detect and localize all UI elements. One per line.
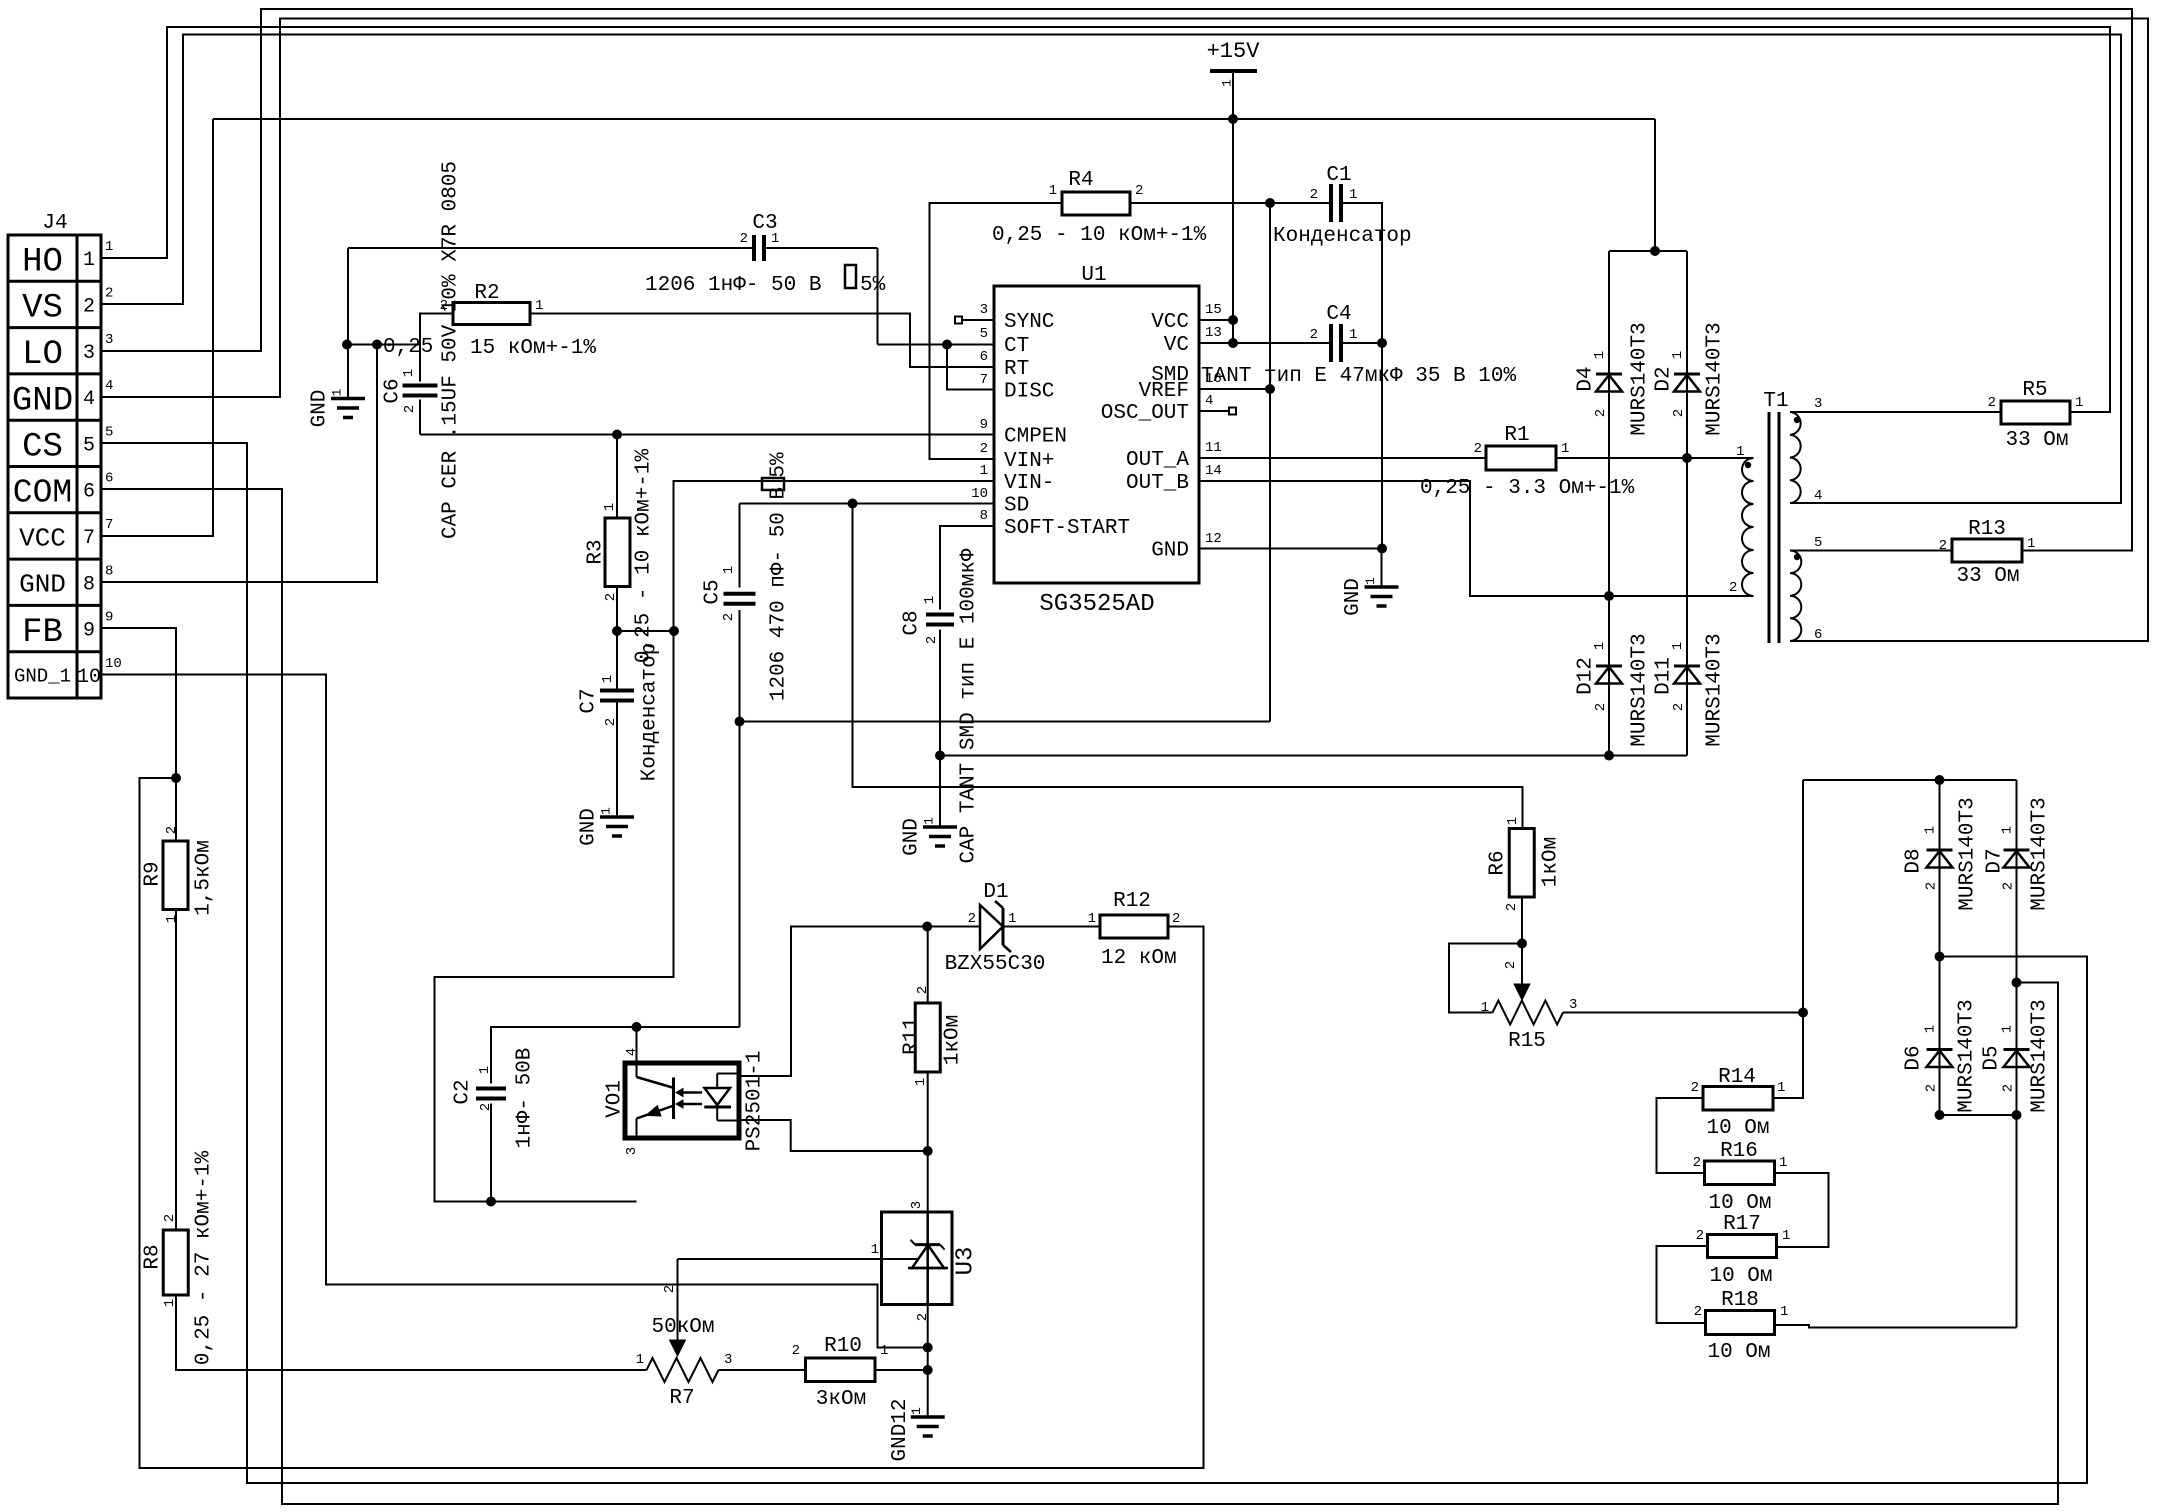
svg-text:SOFT-START: SOFT-START xyxy=(1004,517,1130,540)
svg-text:3: 3 xyxy=(980,302,988,318)
svg-text:MURS140T3: MURS140T3 xyxy=(1703,633,1726,746)
svg-text:5: 5 xyxy=(980,326,988,342)
svg-text:6: 6 xyxy=(105,471,113,487)
svg-text:VO1: VO1 xyxy=(603,1080,626,1118)
svg-text:1: 1 xyxy=(913,1078,929,1086)
svg-text:OSC_OUT: OSC_OUT xyxy=(1101,402,1189,425)
svg-text:2: 2 xyxy=(1988,395,1996,411)
svg-text:C1: C1 xyxy=(1326,164,1351,187)
svg-text:C5: C5 xyxy=(701,579,724,604)
svg-text:R13: R13 xyxy=(1968,518,2006,541)
svg-text:U1: U1 xyxy=(1081,264,1106,287)
svg-text:1: 1 xyxy=(330,388,345,396)
svg-text:1: 1 xyxy=(1922,826,1938,834)
svg-text:1: 1 xyxy=(1780,1304,1788,1320)
svg-text:MURS140T3: MURS140T3 xyxy=(1956,797,1979,910)
svg-text:MURS140T3: MURS140T3 xyxy=(1955,999,1978,1112)
svg-text:+15V: +15V xyxy=(1207,39,1261,64)
svg-text:GND: GND xyxy=(1342,578,1365,616)
svg-text:MURS140T3: MURS140T3 xyxy=(1628,633,1651,746)
svg-text:GND: GND xyxy=(900,818,923,856)
svg-text:1: 1 xyxy=(871,1242,879,1258)
svg-text:CT: CT xyxy=(1004,335,1029,358)
svg-text:2: 2 xyxy=(402,405,418,413)
svg-text:5: 5 xyxy=(1814,535,1822,551)
svg-text:T1: T1 xyxy=(1763,390,1788,413)
svg-text:6: 6 xyxy=(83,481,95,504)
svg-text:14: 14 xyxy=(1205,463,1222,479)
svg-text:D4: D4 xyxy=(1574,366,1597,391)
svg-text:R1: R1 xyxy=(1504,424,1529,447)
svg-text:11: 11 xyxy=(1205,440,1222,456)
svg-text:8: 8 xyxy=(980,508,988,524)
svg-text:U3: U3 xyxy=(952,1247,979,1276)
svg-text:1: 1 xyxy=(477,1066,493,1074)
svg-text:3: 3 xyxy=(1569,997,1577,1013)
svg-text:2: 2 xyxy=(2000,1084,2016,1092)
svg-text:15: 15 xyxy=(1205,302,1222,318)
svg-text:2: 2 xyxy=(1691,1080,1699,1096)
svg-text:VC: VC xyxy=(1164,334,1189,357)
svg-text:VCC: VCC xyxy=(19,523,66,553)
svg-text:OUT_B: OUT_B xyxy=(1126,472,1189,495)
svg-text:1: 1 xyxy=(1670,351,1686,359)
svg-text:R14: R14 xyxy=(1718,1066,1756,1089)
svg-text:C4: C4 xyxy=(1326,303,1351,326)
svg-text:1: 1 xyxy=(1670,642,1686,650)
svg-text:4: 4 xyxy=(624,1048,640,1056)
svg-text:3: 3 xyxy=(724,1352,732,1368)
svg-text:0,25 - 10 кОм+-1%: 0,25 - 10 кОм+-1% xyxy=(632,448,655,663)
svg-text:2: 2 xyxy=(603,718,619,726)
svg-text:0,25 - 3.3 Ом+-1%: 0,25 - 3.3 Ом+-1% xyxy=(1420,477,1635,500)
svg-text:VIN+: VIN+ xyxy=(1004,450,1054,473)
svg-text:SG3525AD: SG3525AD xyxy=(1039,591,1154,618)
svg-text:TANT тип Е 47мкФ 35 В 10%: TANT тип Е 47мкФ 35 В 10% xyxy=(1201,365,1516,388)
svg-text:10: 10 xyxy=(105,656,122,672)
svg-text:GND: GND xyxy=(12,382,73,420)
svg-text:7: 7 xyxy=(105,517,113,533)
svg-text:1: 1 xyxy=(721,566,737,574)
svg-text:6: 6 xyxy=(980,349,988,365)
svg-text:2: 2 xyxy=(1671,703,1687,711)
svg-text:SD: SD xyxy=(1004,495,1029,518)
svg-text:2: 2 xyxy=(968,911,976,927)
svg-text:1: 1 xyxy=(922,817,937,825)
svg-text:2: 2 xyxy=(164,826,180,834)
svg-text:1: 1 xyxy=(1220,79,1235,87)
svg-text:1: 1 xyxy=(1349,187,1357,203)
svg-text:12: 12 xyxy=(1205,531,1222,547)
svg-text:2: 2 xyxy=(1135,183,1143,199)
svg-text:BZX55C30: BZX55C30 xyxy=(945,953,1046,976)
svg-text:3: 3 xyxy=(624,1147,640,1155)
svg-text:HO: HO xyxy=(22,243,63,281)
svg-text:1: 1 xyxy=(1999,1025,2015,1033)
svg-text:2: 2 xyxy=(721,613,737,621)
svg-text:R2: R2 xyxy=(474,282,499,305)
svg-text:CS: CS xyxy=(22,429,63,467)
svg-text:VREF: VREF xyxy=(1139,380,1189,403)
svg-text:33 Ом: 33 Ом xyxy=(1956,565,2019,588)
svg-text:LO: LO xyxy=(22,336,63,374)
svg-text:1: 1 xyxy=(2075,395,2083,411)
svg-text:GND: GND xyxy=(19,570,66,600)
svg-text:R8: R8 xyxy=(141,1244,164,1269)
svg-text:2: 2 xyxy=(915,986,931,994)
svg-text:1: 1 xyxy=(1561,441,1569,457)
svg-text:SYNC: SYNC xyxy=(1004,311,1054,334)
svg-text:MURS140T3: MURS140T3 xyxy=(1628,322,1651,435)
svg-text:R10: R10 xyxy=(824,1335,862,1358)
svg-text:2: 2 xyxy=(1939,538,1947,554)
svg-text:8: 8 xyxy=(105,563,113,579)
svg-text:3: 3 xyxy=(1814,396,1822,412)
svg-text:R6: R6 xyxy=(1486,850,1509,875)
svg-text:1: 1 xyxy=(1349,327,1357,343)
svg-text:GND: GND xyxy=(1151,540,1189,563)
svg-text:12 кОм: 12 кОм xyxy=(1101,947,1177,970)
svg-text:1кОм: 1кОм xyxy=(941,1015,964,1065)
svg-text:50кОм: 50кОм xyxy=(651,1316,714,1339)
svg-text:2: 2 xyxy=(83,295,95,318)
svg-text:C2: C2 xyxy=(451,1079,474,1104)
svg-text:1: 1 xyxy=(880,1343,888,1359)
svg-text:VCC: VCC xyxy=(1151,311,1189,334)
svg-text:GND_1: GND_1 xyxy=(14,666,71,688)
svg-text:GND: GND xyxy=(308,390,331,428)
svg-text:1: 1 xyxy=(105,239,113,255)
svg-text:3: 3 xyxy=(909,1201,925,1209)
svg-text:3: 3 xyxy=(105,332,113,348)
svg-text:R4: R4 xyxy=(1068,169,1093,192)
svg-text:VS: VS xyxy=(22,290,63,328)
svg-text:1: 1 xyxy=(2027,536,2035,552)
svg-text:2: 2 xyxy=(662,1285,678,1293)
svg-text:9: 9 xyxy=(83,620,95,643)
svg-text:1: 1 xyxy=(1008,911,1016,927)
svg-text:3кОм: 3кОм xyxy=(816,1388,866,1411)
svg-text:1: 1 xyxy=(1592,351,1608,359)
svg-text:2: 2 xyxy=(2000,882,2016,890)
svg-text:1: 1 xyxy=(401,369,417,377)
svg-text:1: 1 xyxy=(636,1352,644,1368)
svg-text:2: 2 xyxy=(1310,187,1318,203)
svg-text:R11: R11 xyxy=(900,1017,923,1055)
svg-text:1нФ- 50В: 1нФ- 50В xyxy=(513,1048,536,1149)
svg-text:6: 6 xyxy=(1814,627,1822,643)
svg-text:1: 1 xyxy=(1363,577,1378,585)
svg-text:7: 7 xyxy=(980,372,988,388)
svg-text:PS2501-1: PS2501-1 xyxy=(743,1051,766,1152)
svg-text:1кОм: 1кОм xyxy=(1539,837,1562,887)
svg-text:MURS140T3: MURS140T3 xyxy=(2028,999,2051,1112)
svg-text:1: 1 xyxy=(600,675,616,683)
svg-text:7: 7 xyxy=(83,527,95,550)
svg-text:2: 2 xyxy=(1593,409,1609,417)
svg-text:13: 13 xyxy=(1205,325,1222,341)
svg-text:5: 5 xyxy=(83,434,95,457)
svg-text:1: 1 xyxy=(1088,911,1096,927)
svg-text:2: 2 xyxy=(1172,911,1180,927)
svg-text:J4: J4 xyxy=(42,212,67,235)
svg-text:1: 1 xyxy=(1505,817,1521,825)
svg-text:1: 1 xyxy=(1481,1000,1489,1016)
svg-text:1: 1 xyxy=(909,1407,924,1415)
svg-text:1: 1 xyxy=(1592,642,1608,650)
svg-text:FB: FB xyxy=(22,614,63,652)
svg-text:D1: D1 xyxy=(983,881,1008,904)
svg-text:0,25 - 27 кОм+-1%: 0,25 - 27 кОм+-1% xyxy=(192,1150,215,1365)
svg-text:2: 2 xyxy=(1474,441,1482,457)
svg-text:4: 4 xyxy=(105,378,113,394)
svg-text:5%: 5% xyxy=(767,452,790,478)
svg-text:VIN-: VIN- xyxy=(1004,472,1054,495)
svg-text:1: 1 xyxy=(922,596,938,604)
svg-text:2: 2 xyxy=(1593,703,1609,711)
svg-text:2: 2 xyxy=(603,593,619,601)
svg-text:D8: D8 xyxy=(1902,848,1925,873)
svg-text:2: 2 xyxy=(915,1313,931,1321)
svg-text:0,25: 0,25 xyxy=(383,336,433,359)
svg-text:1,5кОм: 1,5кОм xyxy=(192,840,215,916)
svg-text:D11: D11 xyxy=(1652,657,1675,695)
svg-text:2: 2 xyxy=(740,231,748,247)
svg-text:2: 2 xyxy=(1923,1084,1939,1092)
svg-text:10 Ом: 10 Ом xyxy=(1707,1341,1770,1364)
svg-text:3: 3 xyxy=(83,342,95,365)
svg-text:9: 9 xyxy=(980,417,988,433)
svg-text:D6: D6 xyxy=(1902,1045,1925,1070)
svg-text:1: 1 xyxy=(980,463,988,479)
svg-text:D7: D7 xyxy=(1983,848,2006,873)
svg-text:5: 5 xyxy=(105,424,113,440)
svg-text:2: 2 xyxy=(1310,327,1318,343)
svg-text:2: 2 xyxy=(1503,961,1519,969)
svg-text:COM: COM xyxy=(13,475,72,512)
svg-text:15 кОм+-1%: 15 кОм+-1% xyxy=(470,337,596,360)
svg-text:1: 1 xyxy=(771,231,779,247)
svg-text:C8: C8 xyxy=(900,610,923,635)
svg-text:R9: R9 xyxy=(141,861,164,886)
svg-text:2: 2 xyxy=(1694,1304,1702,1320)
svg-text:10 Ом: 10 Ом xyxy=(1709,1265,1772,1288)
svg-text:1: 1 xyxy=(1782,1228,1790,1244)
svg-text:9: 9 xyxy=(105,610,113,626)
svg-text:10: 10 xyxy=(77,666,101,689)
svg-text:2: 2 xyxy=(1504,903,1520,911)
svg-text:2: 2 xyxy=(1693,1155,1701,1171)
svg-text:4: 4 xyxy=(1205,393,1213,409)
svg-text:C7: C7 xyxy=(577,688,600,713)
svg-text:CAP CER .15UF 50V 10% X7R 0805: CAP CER .15UF 50V 10% X7R 0805 xyxy=(439,161,462,539)
svg-text:Конденсатор: Конденсатор xyxy=(1273,225,1412,248)
svg-text:OUT_A: OUT_A xyxy=(1126,449,1189,472)
svg-text:2: 2 xyxy=(792,1343,800,1359)
svg-text:1206 1нФ- 50 В: 1206 1нФ- 50 В xyxy=(645,274,821,297)
svg-text:33 Ом: 33 Ом xyxy=(2005,429,2068,452)
svg-text:CMPEN: CMPEN xyxy=(1004,426,1067,449)
svg-text:2: 2 xyxy=(1923,882,1939,890)
svg-text:R12: R12 xyxy=(1113,890,1151,913)
svg-text:1: 1 xyxy=(1777,1080,1785,1096)
svg-text:R5: R5 xyxy=(2022,379,2047,402)
svg-text:2: 2 xyxy=(980,441,988,457)
svg-text:1: 1 xyxy=(602,503,618,511)
svg-text:4: 4 xyxy=(83,388,95,411)
svg-text:R16: R16 xyxy=(1720,1140,1758,1163)
svg-text:D5: D5 xyxy=(1980,1045,2003,1070)
svg-text:1: 1 xyxy=(83,249,95,272)
svg-text:1: 1 xyxy=(1049,183,1057,199)
svg-text:1: 1 xyxy=(535,298,543,314)
svg-text:1: 1 xyxy=(162,1299,178,1307)
svg-text:R17: R17 xyxy=(1723,1213,1761,1236)
svg-text:2: 2 xyxy=(924,636,940,644)
svg-text:MURS140T3: MURS140T3 xyxy=(2028,797,2051,910)
svg-text:10 Ом: 10 Ом xyxy=(1708,1192,1771,1215)
svg-text:GND: GND xyxy=(577,808,600,846)
svg-text:R7: R7 xyxy=(669,1387,694,1410)
svg-text:8: 8 xyxy=(83,573,95,596)
svg-text:CAP TANT SMD тип Е 100мкФ: CAP TANT SMD тип Е 100мкФ xyxy=(957,548,980,863)
svg-text:C6: C6 xyxy=(381,378,404,403)
svg-text:1: 1 xyxy=(1736,444,1744,460)
svg-text:5%: 5% xyxy=(860,274,886,297)
svg-text:2: 2 xyxy=(1729,580,1737,596)
svg-text:4: 4 xyxy=(1814,488,1822,504)
svg-text:R3: R3 xyxy=(584,539,607,564)
svg-text:2: 2 xyxy=(105,285,113,301)
svg-text:2: 2 xyxy=(1671,409,1687,417)
svg-text:1: 1 xyxy=(1779,1155,1787,1171)
svg-text:RT: RT xyxy=(1004,358,1029,381)
svg-text:1: 1 xyxy=(599,807,614,815)
svg-text:2: 2 xyxy=(478,1103,494,1111)
svg-text:0,25 - 10 кОм+-1%: 0,25 - 10 кОм+-1% xyxy=(992,224,1207,247)
svg-text:D2: D2 xyxy=(1652,366,1675,391)
svg-text:2: 2 xyxy=(162,1214,178,1222)
svg-text:10 Ом: 10 Ом xyxy=(1706,1117,1769,1140)
svg-text:DISC: DISC xyxy=(1004,381,1054,404)
svg-text:MURS140T3: MURS140T3 xyxy=(1703,322,1726,435)
svg-text:D12: D12 xyxy=(1574,657,1597,695)
svg-text:1: 1 xyxy=(1922,1025,1938,1033)
svg-text:Конденсатор: Конденсатор xyxy=(638,643,661,782)
svg-text:1: 1 xyxy=(164,915,180,923)
svg-text:R15: R15 xyxy=(1508,1030,1546,1053)
svg-text:R18: R18 xyxy=(1721,1289,1759,1312)
svg-text:2: 2 xyxy=(1696,1228,1704,1244)
svg-text:1206 470 пФ- 50 В: 1206 470 пФ- 50 В xyxy=(767,487,790,701)
svg-text:1: 1 xyxy=(1999,826,2015,834)
svg-text:10: 10 xyxy=(971,486,988,502)
